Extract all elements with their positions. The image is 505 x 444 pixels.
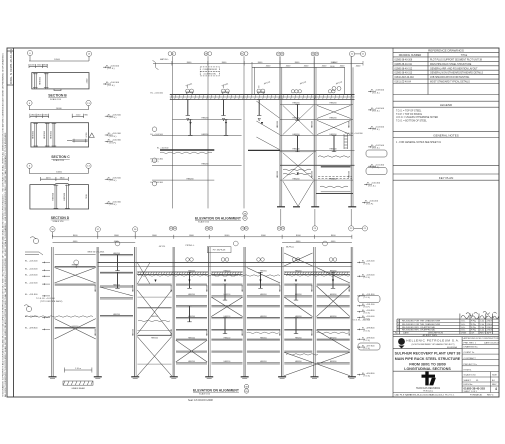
svg-text:1-38-40-303-4: 1-38-40-303-4 [430, 395, 445, 397]
svg-text:JOB SPECIFICATION FOR PAINTING: JOB SPECIFICATION FOR PAINTING [430, 76, 470, 79]
svg-text:G.S.: G.S. [461, 327, 466, 329]
svg-text:P.P. 38-PR-08: P.P. 38-PR-08 [213, 250, 226, 252]
svg-text:A1: A1 [492, 379, 495, 382]
svg-text:01985-38-40-312: 01985-38-40-312 [395, 68, 413, 70]
svg-text:APP: APP [487, 332, 492, 335]
svg-text:ELEVATION ON ALIGNMENT: ELEVATION ON ALIGNMENT [195, 217, 242, 221]
svg-text:SCALE 1/50: SCALE 1/50 [464, 374, 477, 377]
svg-text:T.O.S. = TOP OF STEEL: T.O.S. = TOP OF STEEL [396, 111, 422, 113]
svg-text:01810-ZZZ-40-010: 01810-ZZZ-40-010 [395, 77, 415, 79]
svg-text:HEB200: HEB200 [329, 134, 336, 136]
svg-text:SCALE 1/50: SCALE 1/50 [50, 98, 62, 101]
svg-text:(T.O.S.): (T.O.S.) [364, 313, 371, 315]
svg-text:(T.O.P.): (T.O.P.) [152, 161, 159, 163]
svg-text:46"Line: 46"Line [300, 81, 308, 85]
svg-text:HELLENIC PETROLEUM S.A.: HELLENIC PETROLEUM S.A. [406, 339, 459, 343]
svg-text:HEB200: HEB200 [292, 103, 299, 105]
svg-text:(T.O.S.): (T.O.S.) [109, 204, 117, 206]
svg-text:ITEM N.: ITEM N. [464, 370, 472, 372]
svg-text:(T.O.S.): (T.O.S.) [364, 340, 371, 342]
svg-text:REV 4: REV 4 [487, 395, 494, 397]
svg-text:HEB200: HEB200 [186, 178, 193, 180]
svg-text:HEB300: HEB300 [277, 171, 279, 178]
svg-text:HEB200: HEB200 [329, 118, 336, 120]
svg-text:ELEFSINA: ELEFSINA [447, 346, 457, 349]
svg-text:AS BUILT DWG.: AS BUILT DWG. [423, 334, 438, 337]
svg-text:4500: 4500 [87, 78, 89, 83]
svg-text:EL. +100.300: EL. +100.300 [151, 182, 164, 184]
svg-text:MATCH L.: MATCH L. [160, 58, 170, 61]
svg-text:SECTION B: SECTION B [48, 94, 67, 98]
svg-text:THIS DRAWING IS PROPERTY AND C: THIS DRAWING IS PROPERTY AND CONFIDENTIA… [2, 53, 5, 397]
svg-text:G.S.: G.S. [461, 324, 466, 326]
svg-text:(T.O.S.): (T.O.S.) [109, 136, 117, 138]
svg-text:No.: No. [395, 333, 399, 335]
svg-text:HEB300: HEB300 [349, 285, 351, 292]
svg-text:C.A.: C.A. [480, 329, 485, 332]
svg-text:01985-38-40-313: 01985-38-40-313 [395, 73, 413, 75]
svg-text:HEB200: HEB200 [260, 294, 267, 296]
svg-text:EL. +105.500: EL. +105.500 [151, 93, 164, 95]
svg-text:HEB200: HEB200 [224, 361, 231, 363]
svg-text:HEB200: HEB200 [113, 284, 120, 286]
svg-text:1.10 m: 1.10 m [75, 368, 81, 370]
svg-text:HEB200: HEB200 [292, 118, 299, 120]
svg-text:EL. +108.500: EL. +108.500 [371, 90, 385, 92]
svg-text:(T.O.S.): (T.O.S.) [364, 330, 371, 332]
svg-text:HEB200: HEB200 [329, 103, 336, 105]
svg-text:4: 4 [495, 387, 497, 391]
svg-text:(T.O.S.): (T.O.S.) [107, 68, 115, 70]
svg-text:REV: REV [480, 333, 485, 335]
svg-text:LONGITUDINAL SECTIONS: LONGITUDINAL SECTIONS [404, 367, 451, 371]
svg-text:EL. +105.500: EL. +105.500 [108, 114, 122, 116]
svg-text:HEB200: HEB200 [72, 265, 79, 267]
svg-text:(T.O.S.): (T.O.S.) [372, 92, 380, 94]
svg-text:EL. +098.800: EL. +098.800 [25, 328, 38, 330]
svg-text:Seal: 1/6 03-NOV-2008: Seal: 1/6 03-NOV-2008 [188, 399, 213, 402]
svg-text:HEB300: HEB300 [279, 329, 281, 336]
svg-text:01985-38-40-308: 01985-38-40-308 [395, 59, 413, 61]
svg-text:DATE 03-09-08: DATE 03-09-08 [484, 342, 500, 345]
svg-text:HEB300: HEB300 [206, 285, 208, 292]
svg-text:EL. +100.300: EL. +100.300 [108, 201, 122, 203]
svg-text:01985-38-40-303: 01985-38-40-303 [464, 386, 486, 390]
svg-text:HEB200: HEB200 [330, 338, 337, 340]
svg-text:HEB300: HEB300 [64, 192, 66, 201]
svg-text:HEB200: HEB200 [330, 294, 337, 296]
svg-text:F.Plg: F.Plg [471, 324, 477, 326]
svg-text:(T.O.S.): (T.O.S.) [372, 129, 380, 131]
svg-text:REV: REV [492, 384, 497, 386]
svg-text:13: 13 [88, 54, 91, 56]
svg-text:HEB240: HEB240 [329, 149, 336, 151]
svg-text:DWG. N 01985-38-40-303: DWG. N 01985-38-40-303 [9, 49, 13, 84]
svg-text:EL. +101.300: EL. +101.300 [362, 304, 375, 306]
svg-text:EL. +102.500: EL. +102.500 [25, 282, 38, 284]
svg-text:TECNICAS REUNIDAS: TECNICAS REUNIDAS [416, 387, 441, 390]
svg-text:EL. +101.800: EL. +101.800 [25, 294, 38, 296]
svg-text:HEB200: HEB200 [260, 316, 267, 318]
svg-text:U.O.N. = UNLESS OTHERWISE NOTE: U.O.N. = UNLESS OTHERWISE NOTED [396, 117, 438, 119]
svg-text:SIZE: SIZE [492, 375, 497, 377]
svg-text:HEB300: HEB300 [44, 130, 46, 139]
svg-text:T.O.S. EL. +100.300: T.O.S. EL. +100.300 [352, 320, 371, 322]
svg-text:01985-38-40-311: 01985-38-40-311 [395, 64, 413, 66]
svg-text:MAIN PIPE RACK STEEL STRUCTURE: MAIN PIPE RACK STEEL STRUCTURE [395, 357, 461, 361]
svg-text:CH: CH [471, 333, 475, 335]
svg-text:46"Line: 46"Line [336, 81, 344, 85]
svg-text:6: 6 [29, 166, 31, 168]
svg-text:HEB300: HEB300 [132, 329, 134, 336]
svg-text:EL. +097.800: EL. +097.800 [362, 345, 375, 347]
svg-text:HEB200: HEB200 [151, 338, 158, 340]
svg-text:F.Plg: F.Plg [471, 330, 477, 332]
svg-text:10500: 10500 [54, 59, 61, 61]
svg-text:EL. +100.300: EL. +100.300 [108, 140, 122, 142]
svg-text:G.S.: G.S. [461, 321, 466, 323]
svg-text:HEB300: HEB300 [33, 130, 35, 139]
svg-text:DWN: DWN [461, 333, 467, 335]
svg-text:01811-ZZ-40-04: 01811-ZZ-40-04 [395, 82, 412, 84]
svg-text:EL. +100.000: EL. +100.000 [365, 201, 379, 203]
svg-text:HEB200: HEB200 [260, 361, 267, 363]
svg-text:RE-ISSUED REV. OF APPROVAL: RE-ISSUED REV. OF APPROVAL [402, 329, 436, 332]
svg-text:LEGEND: LEGEND [440, 103, 453, 107]
svg-text:(T.O.S.): (T.O.S.) [372, 148, 380, 150]
svg-text:MOST STANDARD TYPICAL DETAILS: MOST STANDARD TYPICAL DETAILS [430, 81, 470, 84]
svg-text:EL. +103.500: EL. +103.500 [25, 274, 38, 276]
svg-text:C.A.: C.A. [480, 323, 485, 326]
svg-text:SCALE 1/50: SCALE 1/50 [53, 159, 65, 162]
svg-text:DRAWING No.: DRAWING No. [464, 345, 479, 348]
svg-text:EL. +100.300: EL. +100.300 [106, 82, 120, 84]
svg-text:EL. +101.300: EL. +101.300 [371, 164, 385, 166]
svg-text:HEB300: HEB300 [348, 121, 350, 128]
svg-text:HEB200: HEB200 [188, 361, 195, 363]
svg-text:(T.O.S.): (T.O.S.) [109, 117, 117, 119]
svg-text:EL. +102.300: EL. +102.300 [157, 148, 168, 150]
svg-text:HEB200: HEB200 [224, 338, 231, 340]
svg-text:EL. +105.500: EL. +105.500 [362, 261, 375, 263]
svg-text:T.O.S. EL. +104.300: T.O.S. EL. +104.300 [345, 133, 364, 135]
svg-text:SHEET 1 OF 5: SHEET 1 OF 5 [464, 391, 478, 393]
svg-text:REFERENCE DRAWINGS: REFERENCE DRAWINGS [428, 48, 464, 52]
svg-text:PLOT PLUS SUPPORT SEGMENT PLOT: PLOT PLUS SUPPORT SEGMENT PLOT UNIT 38 [430, 59, 483, 61]
svg-text:T.O.P. = TOP OF PAVING: T.O.P. = TOP OF PAVING [396, 113, 422, 116]
svg-text:38: 38 [51, 229, 54, 231]
svg-text:HEB300: HEB300 [312, 285, 314, 292]
svg-text:F.Plg: F.Plg [471, 321, 477, 323]
svg-text:EL. +105.500: EL. +105.500 [25, 261, 38, 263]
svg-text:PLOT 1:1: PLOT 1:1 [445, 395, 455, 397]
svg-text:4000: 4000 [356, 66, 361, 68]
svg-text:SCALE 1/50: SCALE 1/50 [199, 392, 211, 395]
svg-text:G.S.: G.S. [461, 330, 466, 332]
svg-text:(TYP. FOR PIPE RACK): (TYP. FOR PIPE RACK) [40, 300, 63, 303]
svg-text:PRE. REV. 1: PRE. REV. 1 [464, 343, 477, 345]
svg-text:21: 21 [362, 54, 365, 56]
svg-text:EL. +098.300: EL. +098.300 [362, 337, 375, 339]
svg-text:C.A.: C.A. [480, 326, 485, 329]
svg-text:(T.O.P.): (T.O.P.) [109, 142, 117, 144]
svg-text:GRADE BEAM: GRADE BEAM [71, 387, 85, 390]
svg-text:22: 22 [351, 54, 354, 56]
svg-text:HEB200: HEB200 [188, 338, 195, 340]
svg-text:J.M.B: J.M.B [487, 321, 493, 323]
svg-text:RE-ISSUED REV. OF APPROVAL: RE-ISSUED REV. OF APPROVAL [402, 326, 436, 329]
svg-text:14000: 14000 [56, 172, 63, 174]
svg-text:SECTION C: SECTION C [51, 155, 70, 159]
svg-text:HEB200: HEB200 [295, 338, 302, 340]
svg-text:EL. +100.300: EL. +100.300 [367, 183, 381, 185]
svg-text:NEW 46"-PG-3801: NEW 46"-PG-3801 [88, 252, 106, 254]
svg-text:HEB200: HEB200 [151, 316, 158, 318]
svg-text:HEB200: HEB200 [201, 134, 208, 136]
svg-text:HEB200: HEB200 [292, 134, 299, 136]
svg-text:23: 23 [314, 228, 317, 230]
svg-text:HEB200: HEB200 [330, 361, 337, 363]
svg-text:EL. +105.500: EL. +105.500 [106, 65, 120, 67]
svg-text:APPROVED FOR CONSTRUCTION: APPROVED FOR CONSTRUCTION [464, 337, 500, 340]
svg-text:SULPHUR RECOVERY PLANT UNIT 38: SULPHUR RECOVERY PLANT UNIT 38 [395, 352, 461, 356]
svg-text:21: 21 [364, 228, 367, 230]
svg-text:HEB300: HEB300 [40, 76, 42, 85]
svg-text:HEB300: HEB300 [51, 130, 53, 139]
svg-text:6: 6 [29, 53, 31, 55]
svg-text:(T.O.S.): (T.O.S.) [364, 277, 371, 279]
svg-text:EL. +105.500: EL. +105.500 [108, 177, 122, 179]
svg-text:HEB300: HEB300 [95, 285, 97, 292]
svg-text:980: 980 [84, 115, 88, 117]
svg-text:HEB200: HEB200 [113, 314, 120, 316]
svg-text:SHEET: SHEET [464, 380, 472, 382]
svg-text:FORMAT A1: FORMAT A1 [470, 394, 483, 397]
svg-text:36: 36 [134, 229, 137, 231]
svg-text:38-PR-xx: 38-PR-xx [286, 247, 294, 249]
svg-text:J.M.B: J.M.B [487, 330, 493, 332]
svg-text:KEY PLAN: KEY PLAN [439, 176, 454, 180]
svg-text:HEB300: HEB300 [349, 329, 351, 336]
svg-text:GENERAL NOTES: GENERAL NOTES [433, 133, 458, 137]
svg-text:FROM 38/01 TO 38/09: FROM 38/01 TO 38/09 [409, 363, 446, 367]
svg-text:PIPING: PIPING [222, 83, 229, 87]
svg-text:37: 37 [97, 229, 100, 231]
svg-text:HEB300: HEB300 [95, 329, 97, 336]
svg-text:SCALE 1/50: SCALE 1/50 [53, 220, 65, 223]
svg-text:(T.O.P.): (T.O.P.) [364, 307, 371, 309]
svg-text:EL. +103.500: EL. +103.500 [362, 274, 375, 276]
svg-text:HEB300: HEB300 [277, 121, 279, 128]
svg-text:(T.O.S.): (T.O.S.) [372, 111, 380, 113]
svg-text:EL. +106.500: EL. +106.500 [371, 108, 385, 110]
svg-text:RE-ISSUED FOR THE CHANGEOVER: RE-ISSUED FOR THE CHANGEOVER [402, 323, 441, 326]
svg-text:HEB300: HEB300 [348, 171, 350, 178]
svg-text:RE-ISSUED FOR THE CHANGEOVER: RE-ISSUED FOR THE CHANGEOVER [402, 320, 441, 323]
svg-text:HEB300: HEB300 [312, 329, 314, 336]
svg-text:HEB300: HEB300 [279, 285, 281, 292]
svg-text:30: 30 [171, 53, 174, 55]
svg-text:C.A.: C.A. [480, 320, 485, 323]
svg-text:F.Plg: F.Plg [471, 327, 477, 329]
svg-text:HEB200: HEB200 [201, 118, 208, 120]
svg-text:(T.O.S.): (T.O.S.) [368, 185, 376, 187]
svg-text:HEB200: HEB200 [330, 316, 337, 318]
svg-text:22: 22 [350, 228, 353, 230]
svg-text:HEB300: HEB300 [242, 285, 244, 292]
svg-text:MAIN PIPE RACK STEEL STRUCTURE: MAIN PIPE RACK STEEL STRUCTURE [430, 63, 472, 66]
svg-text:EL. +104.500: EL. +104.500 [371, 127, 385, 129]
svg-text:DRAWING NUMBER: DRAWING NUMBER [399, 54, 422, 57]
svg-text:(T.O.S.): (T.O.S.) [364, 348, 371, 350]
svg-text:(T.O.S.): (T.O.S.) [364, 297, 371, 299]
svg-text:CLIENT Dr.: CLIENT Dr. [464, 351, 476, 354]
svg-text:1 - FOR GENERAL NOTES SEE SHEE: 1 - FOR GENERAL NOTES SEE SHEET 01 [396, 141, 442, 144]
svg-text:01: 01 [476, 380, 479, 382]
svg-text:EL. +104.500: EL. +104.500 [25, 269, 38, 271]
svg-text:HEB200: HEB200 [188, 294, 195, 296]
svg-text:HEB300: HEB300 [242, 329, 244, 336]
svg-text:HEB200: HEB200 [201, 164, 208, 166]
svg-text:EL. +100.800: EL. +100.800 [362, 310, 375, 312]
svg-text:EL. +098.800: EL. +098.800 [362, 328, 375, 330]
svg-text:EL. +100.000: EL. +100.000 [25, 316, 38, 318]
svg-text:EL. +101.800: EL. +101.800 [362, 294, 375, 296]
svg-text:HEB200: HEB200 [292, 178, 299, 180]
svg-text:EL. +094.800: EL. +094.800 [362, 373, 375, 375]
svg-text:EL. +100.000: EL. +100.000 [362, 316, 375, 318]
svg-text:PIPING: PIPING [186, 83, 193, 87]
svg-text:T.O.S. EL. +101.300: T.O.S. EL. +101.300 [36, 298, 56, 300]
svg-text:HEB200: HEB200 [329, 178, 336, 180]
svg-text:SECTION D: SECTION D [51, 216, 70, 220]
svg-text:6700: 6700 [86, 132, 88, 137]
svg-text:J.M.B: J.M.B [487, 324, 493, 326]
svg-text:(T.O.P.): (T.O.P.) [366, 203, 374, 205]
svg-text:COMPRESSOR: COMPRESSOR [203, 69, 218, 71]
svg-text:HEB200: HEB200 [295, 361, 302, 363]
svg-text:13: 13 [87, 166, 90, 168]
svg-text:(T.O.S.): (T.O.S.) [109, 180, 117, 182]
svg-text:(T.O.S.): (T.O.S.) [364, 263, 371, 265]
svg-text:46"Line: 46"Line [264, 81, 272, 85]
svg-text:PIPING L.: PIPING L. [185, 245, 194, 247]
svg-text:TR Estatica: TR Estatica [423, 390, 434, 393]
svg-text:HEB300: HEB300 [311, 121, 313, 128]
svg-text:14000: 14000 [56, 108, 63, 110]
svg-text:HEB300: HEB300 [311, 171, 313, 178]
svg-text:EL. +102.500: EL. +102.500 [371, 145, 385, 147]
svg-text:TITLE: TITLE [461, 54, 468, 57]
svg-text:EL. +101.300: EL. +101.300 [108, 133, 122, 135]
svg-text:(SOUTH REFINERY UPGRADE PROJEC: (SOUTH REFINERY UPGRADE PROJECT) [412, 343, 455, 346]
svg-text:HEB240: HEB240 [292, 149, 299, 151]
svg-text:(CORRIDOR): (CORRIDOR) [204, 74, 217, 76]
svg-text:ELEVATION ON ALIGNMENT: ELEVATION ON ALIGNMENT [193, 388, 240, 392]
svg-text:HEB300: HEB300 [206, 329, 208, 336]
svg-text:GENERAL NON-STANDARD/STANDARD: GENERAL NON-STANDARD/STANDARD DETAILS [430, 72, 483, 75]
svg-text:46"-PG: 46"-PG [159, 246, 166, 248]
svg-text:HEB300: HEB300 [53, 192, 55, 201]
svg-text:SCALE 1/50: SCALE 1/50 [198, 221, 210, 224]
svg-text:(T.O.S.): (T.O.S.) [364, 376, 371, 378]
svg-text:7000: 7000 [86, 194, 88, 199]
svg-text:EL. +104.500: EL. +104.500 [151, 134, 164, 136]
svg-text:13: 13 [87, 103, 90, 105]
svg-text:6: 6 [29, 103, 31, 105]
svg-text:GENERAL ARR. AND FOUNDATION LA: GENERAL ARR. AND FOUNDATION LAYOUT [430, 67, 478, 70]
svg-text:HEB200: HEB200 [260, 338, 267, 340]
svg-text:DATE: DATE [403, 332, 409, 335]
svg-text:ALL RIGHTS RESERVED THIS DOCUM: ALL RIGHTS RESERVED THIS DOCUMENT SHALL … [4, 132, 7, 397]
svg-text:T.O.G. = BOTTOM OF STEEL: T.O.G. = BOTTOM OF STEEL [396, 120, 428, 122]
svg-text:J.M.B: J.M.B [487, 327, 493, 329]
svg-text:HEB300: HEB300 [132, 285, 134, 292]
svg-text:(T.O.S.): (T.O.S.) [107, 85, 115, 87]
